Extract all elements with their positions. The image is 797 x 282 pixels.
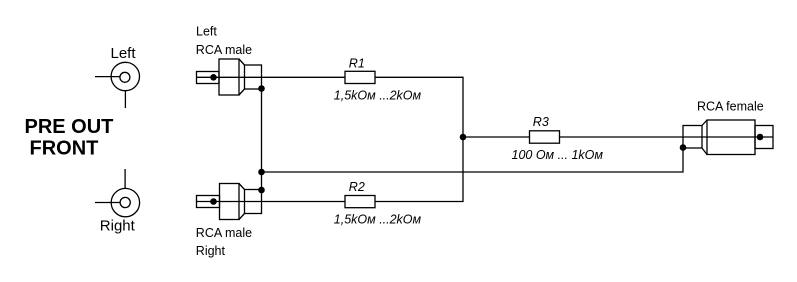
panel jack J2 Right bbox=[111, 188, 139, 216]
svg-text:Right: Right bbox=[196, 244, 226, 258]
svg-text:R2: R2 bbox=[349, 180, 365, 194]
wire J1 left stub bbox=[95, 76, 120, 78]
wire J2 top stub bbox=[124, 169, 126, 188]
junction node A bbox=[460, 134, 467, 141]
panel jack J1 Left bbox=[111, 62, 139, 90]
svg-text:R1: R1 bbox=[349, 57, 365, 71]
wire node A to R3 bbox=[463, 136, 530, 138]
junction P3 pin bbox=[757, 134, 764, 141]
svg-text:PRE OUT: PRE OUT bbox=[25, 116, 114, 138]
wire R1 to node A bbox=[375, 77, 463, 137]
junction P3 shield bbox=[680, 144, 687, 151]
junction P2 shield bbox=[258, 187, 265, 194]
wire J2 left stub bbox=[95, 202, 120, 204]
junction shield bus bbox=[258, 169, 265, 176]
svg-text:R3: R3 bbox=[533, 115, 549, 129]
wire shield to RCA female bbox=[262, 148, 684, 172]
svg-text:1,5kОм ...2kОм: 1,5kОм ...2kОм bbox=[334, 88, 422, 102]
svg-text:RCA male: RCA male bbox=[196, 43, 252, 57]
junction P1 pin bbox=[210, 74, 217, 81]
svg-text:Right: Right bbox=[100, 218, 136, 235]
wire shield bus P1 to P2 bbox=[261, 89, 263, 190]
connector P2 RCA male Right bbox=[197, 184, 262, 220]
wire P1 pin to R1 bbox=[197, 76, 346, 78]
svg-text:Left: Left bbox=[111, 45, 137, 62]
svg-text:RCA male: RCA male bbox=[196, 226, 252, 240]
wire P2 pin to R2 bbox=[197, 201, 346, 203]
svg-text:FRONT: FRONT bbox=[30, 138, 99, 160]
wire R2 to node A bbox=[375, 137, 463, 202]
svg-text:1,5kОм ...2kОм: 1,5kОм ...2kОм bbox=[334, 213, 422, 227]
junction P2 pin bbox=[210, 198, 217, 205]
resistor R3 bbox=[530, 131, 560, 143]
wire J1 bottom stub bbox=[124, 91, 126, 108]
wire R3 to female pin bbox=[560, 136, 774, 138]
resistor R2 bbox=[345, 196, 375, 208]
svg-text:Left: Left bbox=[196, 25, 217, 39]
connector P3 RCA female bbox=[683, 120, 773, 155]
connector P1 RCA male Left bbox=[197, 59, 262, 95]
resistor R1 bbox=[345, 71, 375, 83]
svg-text:RCA female: RCA female bbox=[697, 100, 764, 114]
svg-text:100 Ом ... 1kОм: 100 Ом ... 1kОм bbox=[512, 148, 604, 162]
junction P1 shield bbox=[258, 85, 265, 92]
